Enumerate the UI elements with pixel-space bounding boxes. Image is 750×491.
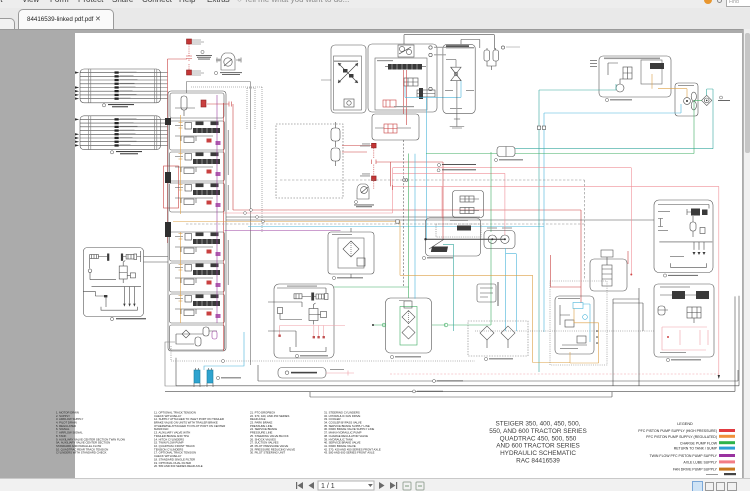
steering accumulator pair bbox=[484, 46, 520, 70]
dotted pilot return bbox=[171, 346, 475, 361]
tank return line bbox=[165, 342, 205, 386]
bypass label bbox=[718, 96, 730, 101]
bus regulated orange bbox=[173, 221, 400, 223]
brake dashed enclosure bbox=[550, 281, 607, 365]
lube line end arrow bbox=[718, 375, 720, 379]
return wire to screens bbox=[204, 332, 244, 370]
test module label bbox=[422, 256, 453, 259]
tension check valve 2 bbox=[331, 148, 340, 166]
track tension accumulator bbox=[216, 53, 241, 70]
legend swatch charge bbox=[719, 441, 735, 444]
nav controls bbox=[290, 479, 430, 491]
stack outlet section bbox=[170, 325, 225, 350]
cooler label bbox=[390, 355, 421, 358]
section vertical labels bbox=[228, 130, 229, 285]
fan motor module bbox=[675, 83, 698, 116]
right black verticals bbox=[613, 288, 643, 386]
menu bar bbox=[0, 0, 750, 8]
red tension supply down bbox=[232, 104, 234, 210]
legend swatch fan drive bbox=[719, 468, 735, 471]
connector block J1 bbox=[75, 69, 168, 103]
svg-text:RAC 84416539: RAC 84416539 bbox=[516, 458, 560, 465]
wire main valve to accumulators bbox=[404, 35, 494, 50]
drain dashed long bbox=[280, 180, 585, 280]
trans lube dotted bbox=[475, 330, 655, 332]
main valve return cyan bbox=[405, 81, 461, 240]
rear axle module port ticks bbox=[658, 211, 684, 257]
hose breaks bbox=[537, 126, 545, 129]
svg-text:AND 600 TRACTOR SERIES: AND 600 TRACTOR SERIES bbox=[496, 443, 580, 450]
legend doc number bbox=[706, 474, 718, 475]
pink stub node bbox=[392, 185, 394, 190]
pto module tag bbox=[287, 286, 317, 287]
title block bbox=[489, 421, 586, 465]
black join wires bbox=[613, 299, 643, 303]
module label bbox=[110, 317, 146, 320]
parts list columns bbox=[56, 411, 381, 469]
steering hand pump module bbox=[443, 44, 475, 113]
fan motor tag bbox=[678, 85, 694, 86]
red pilot dashed line bbox=[188, 44, 190, 70]
option dots bbox=[590, 60, 597, 67]
suction screen cylinder 2 bbox=[207, 368, 213, 387]
charge pump bypass diamond bbox=[702, 95, 712, 105]
axle lube line 2 bbox=[393, 173, 505, 235]
auxiliary valve section 6 bbox=[170, 294, 225, 323]
svg-text:QUADTRAC 450, 500, 550: QUADTRAC 450, 500, 550 bbox=[500, 435, 577, 442]
active document tab bbox=[18, 9, 114, 30]
fan return cyan bbox=[544, 104, 681, 332]
park brake valve module bbox=[555, 296, 594, 354]
optional tension dashed box bbox=[276, 124, 343, 198]
sump module tag bbox=[450, 220, 468, 221]
page corner doc number bbox=[724, 473, 736, 475]
legend swatch twin flow bbox=[719, 454, 735, 457]
hand pump module label bbox=[446, 47, 474, 48]
cooler tag bbox=[399, 299, 411, 302]
svg-text:CYLINDERS WITH STANDARD CHECK: CYLINDERS WITH STANDARD CHECK bbox=[56, 451, 107, 455]
front axle module bbox=[654, 284, 714, 357]
auxiliary valve section 4 bbox=[170, 232, 225, 261]
main control valve module bbox=[368, 44, 437, 112]
fan drive valve module bbox=[599, 56, 671, 97]
red highlighted section box bbox=[164, 166, 179, 208]
green drop from charge line bbox=[490, 152, 492, 232]
svg-text:30. PILOT STEERING UNIT: 30. PILOT STEERING UNIT bbox=[250, 451, 285, 455]
supply bus pink riser bbox=[224, 168, 393, 213]
front axle tags bbox=[660, 287, 690, 354]
orange regulated riser bbox=[400, 222, 570, 363]
main valve label texts bbox=[434, 47, 446, 56]
hand pump drain stem bbox=[456, 81, 458, 119]
orange badge icon bbox=[704, 0, 712, 4]
stack inlet section bbox=[170, 93, 233, 118]
svg-text:43. 580 AND 600 SERIES FRONT A: 43. 580 AND 600 SERIES FRONT AXLE bbox=[324, 451, 375, 455]
trailer brake coupler lower bbox=[187, 70, 205, 75]
strainer dashed box bbox=[468, 321, 528, 356]
dropbox lube line bbox=[326, 371, 354, 376]
bus tank line bbox=[226, 216, 480, 218]
high pressure rail red bbox=[222, 103, 224, 351]
front axle label bbox=[666, 358, 701, 361]
dropbox side tag bbox=[330, 369, 344, 370]
view mode icons right bbox=[692, 481, 703, 491]
priority valve module bbox=[372, 114, 419, 140]
stack mount connector blocks bbox=[165, 118, 171, 237]
drain hose break bbox=[403, 179, 408, 182]
park brake module header label bbox=[334, 61, 358, 62]
return loop rect mid bbox=[176, 296, 739, 386]
charge return teal loop bbox=[515, 89, 713, 149]
purple branch bbox=[225, 230, 341, 232]
main valve red risers bbox=[404, 70, 407, 125]
legend swatch return bbox=[719, 447, 735, 450]
bus return cyan bbox=[248, 226, 544, 228]
svg-text:STEIGER 350, 400, 450, 500,: STEIGER 350, 400, 450, 500, bbox=[496, 421, 581, 428]
trailer brake coupler upper bbox=[187, 39, 205, 44]
return loop rect outer bbox=[258, 365, 738, 381]
svg-text:20. 580 AND 600 SERIES REAR AX: 20. 580 AND 600 SERIES REAR AXLE bbox=[154, 464, 203, 468]
coupler gap symbol bbox=[372, 160, 376, 165]
lube dashed return bbox=[390, 373, 719, 375]
rear axle module bbox=[654, 200, 713, 273]
auxiliary valve section 1 bbox=[170, 121, 225, 150]
svg-text:RETURN TO TANK / SUMP: RETURN TO TANK / SUMP bbox=[674, 447, 718, 451]
fan drive module header label bbox=[604, 58, 660, 60]
svg-text:550, AND 600 TRACTOR SERIES: 550, AND 600 TRACTOR SERIES bbox=[489, 428, 586, 435]
bus signal line bbox=[226, 219, 654, 221]
svg-text:PFC PISTON PUMP SUPPLY (REGULA: PFC PISTON PUMP SUPPLY (REGULATED) bbox=[646, 435, 717, 439]
bus line tag circles bbox=[244, 209, 265, 223]
park brake module bbox=[331, 45, 366, 113]
find box bbox=[726, 0, 750, 7]
svg-text:FAN DRIVE PUMP SUPPLY: FAN DRIVE PUMP SUPPLY bbox=[673, 468, 718, 472]
legend labels bbox=[638, 429, 717, 472]
pto clutch lube module bbox=[83, 248, 143, 317]
fan drive orange tap bbox=[651, 74, 653, 89]
cooler inlet green bbox=[334, 154, 409, 299]
load sense dotted wire bbox=[191, 87, 262, 232]
brake valve tags bbox=[558, 298, 580, 349]
axle module label bbox=[663, 274, 698, 277]
tab bar bbox=[0, 8, 750, 30]
svg-text:PFC PISTON PUMP SUPPLY (HIGH P: PFC PISTON PUMP SUPPLY (HIGH PRESSURE) bbox=[638, 429, 717, 433]
legend title bbox=[677, 422, 693, 426]
ground sump symbol bbox=[450, 119, 465, 128]
lube pressure test module bbox=[424, 218, 505, 256]
auxiliary valve section 3 bbox=[170, 183, 225, 212]
svg-text:LEGEND: LEGEND bbox=[677, 422, 693, 426]
pressure gauge block bbox=[484, 231, 515, 249]
bus drain dashed bbox=[186, 223, 585, 225]
regulated supply rail orange bbox=[179, 115, 181, 323]
connector J1 label bbox=[102, 104, 134, 108]
suction screen cylinder 1 bbox=[194, 368, 200, 387]
tension coupler upper bbox=[372, 143, 377, 159]
brake filter box bbox=[477, 284, 496, 302]
connector J2 label bbox=[110, 151, 142, 155]
legend swatch regulated bbox=[719, 435, 735, 438]
steering module inner ticks bbox=[445, 90, 474, 109]
cooler return cyan bbox=[414, 154, 416, 299]
pto clutch module bbox=[268, 284, 345, 358]
pilot supply red bbox=[376, 162, 443, 239]
oil cooler module bbox=[372, 298, 448, 353]
pto module label bbox=[295, 354, 328, 357]
supply bus red bbox=[233, 210, 581, 303]
accumulator label bbox=[354, 201, 374, 208]
status bar bbox=[0, 478, 750, 491]
svg-text:TWIN FLOW PFC PISTON PUMP SUPP: TWIN FLOW PFC PISTON PUMP SUPPLY bbox=[650, 454, 718, 458]
brake orange loop bbox=[570, 309, 599, 364]
coupler gap symbol bbox=[186, 55, 192, 61]
partial tab stub bbox=[0, 18, 15, 30]
main valve port labels bbox=[377, 60, 414, 107]
accumulator label bbox=[214, 71, 242, 75]
note callout circle bbox=[196, 50, 212, 59]
charge supply green bbox=[426, 100, 702, 153]
svg-text:HYDRAULIC SCHEMATIC: HYDRAULIC SCHEMATIC bbox=[500, 450, 576, 457]
legend swatch axle lube bbox=[719, 460, 735, 463]
dotted drain wires bbox=[247, 88, 255, 130]
charge supply teal bbox=[539, 84, 616, 372]
gauge return cyan pair bbox=[506, 248, 517, 331]
cooler outlet green bbox=[448, 240, 491, 325]
lube label 1 bbox=[438, 164, 477, 167]
park brake supply pink bbox=[393, 186, 719, 376]
lube end node bbox=[630, 274, 632, 276]
lube label 2 bbox=[437, 169, 476, 172]
red supply rail left of stack bbox=[168, 59, 188, 243]
wires module to stack bbox=[144, 257, 169, 263]
svg-text:CHARGE PUMP FLOW: CHARGE PUMP FLOW bbox=[680, 441, 718, 445]
fan pump module bbox=[590, 250, 627, 291]
auxiliary valve section 5 bbox=[170, 263, 225, 292]
tension coupler lower bbox=[372, 165, 377, 190]
dotted line node bbox=[222, 360, 225, 363]
fan pump supply red bbox=[627, 251, 629, 264]
find magnifier bbox=[717, 0, 722, 3]
fan supply orange bbox=[658, 89, 687, 98]
signal wire to center module bbox=[187, 80, 332, 365]
shock valve module bbox=[453, 191, 484, 218]
gauge block tags bbox=[487, 228, 512, 229]
twin flow rail purple bbox=[216, 95, 218, 323]
filter label bbox=[332, 276, 363, 279]
right scrollbar bbox=[743, 29, 750, 478]
tank tee node bbox=[497, 147, 515, 157]
svg-text:AXLE LUBE SUPPLY: AXLE LUBE SUPPLY bbox=[683, 460, 717, 464]
return loop rect inner bbox=[165, 296, 735, 397]
return filter module bbox=[328, 228, 374, 278]
suction screen label bbox=[216, 376, 241, 379]
pilot dashed drop bbox=[403, 140, 405, 287]
filter module tag bbox=[332, 234, 352, 235]
front tension accumulator bbox=[357, 184, 369, 199]
connector block J2 bbox=[75, 116, 168, 150]
tension supply red wires bbox=[342, 146, 372, 153]
legend swatch high pressure bbox=[719, 429, 735, 432]
brake module dots bbox=[596, 330, 598, 344]
pto dropbox bbox=[278, 368, 326, 379]
hitch valve stack outline bbox=[168, 91, 226, 351]
auxiliary valve section 2 bbox=[170, 152, 225, 181]
coupler labels bbox=[360, 144, 370, 177]
strainer label bbox=[484, 357, 513, 360]
fan drive label bbox=[605, 98, 632, 101]
orange line hose break bbox=[396, 220, 399, 223]
axle lube line 1 bbox=[393, 168, 632, 274]
loop labels bbox=[413, 380, 464, 393]
tee label bbox=[495, 159, 524, 162]
sump teal tap bbox=[443, 244, 454, 331]
vertical label text bbox=[498, 282, 499, 306]
tension check valve 1 bbox=[331, 122, 340, 147]
